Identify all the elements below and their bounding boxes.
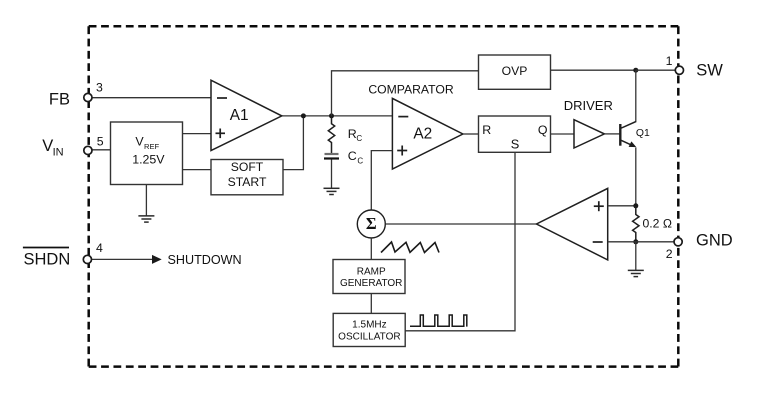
svg-text:4: 4	[96, 241, 103, 255]
node dot sense top	[633, 203, 638, 208]
wire ramp generator to oscillator	[370, 294, 372, 314]
svg-text:C: C	[357, 156, 363, 165]
wire sigma down to ramp generator	[370, 238, 372, 260]
wire A2 plus input from sigma	[371, 151, 392, 211]
sense amp minus sign	[593, 241, 603, 243]
wire VREF to A1 plus input	[183, 133, 212, 135]
pin FB circle	[84, 93, 92, 101]
node dot soft-start junction	[301, 113, 306, 118]
ground for CC	[324, 188, 340, 194]
current sense amplifier	[537, 188, 608, 260]
ground for VREF	[145, 185, 147, 216]
SHUTDOWN arrowhead	[152, 255, 162, 264]
svg-text:SW: SW	[696, 61, 723, 79]
wire A1 output to A2 minus input	[282, 115, 393, 117]
svg-text:R: R	[482, 123, 491, 137]
summing node sigma	[357, 210, 385, 238]
RS latch block	[479, 116, 551, 152]
svg-text:SOFT: SOFT	[231, 160, 264, 174]
wire OVP output to SW node	[551, 69, 636, 71]
wire A2 output to RS latch	[463, 133, 479, 135]
svg-text:DRIVER: DRIVER	[564, 98, 613, 113]
A1 minus sign	[217, 97, 227, 99]
node dot SW junction	[633, 68, 638, 73]
op-amp A1	[211, 80, 282, 150]
VREF block	[111, 122, 183, 185]
wire sigma to sense amp output	[385, 223, 536, 225]
svg-text:IN: IN	[53, 147, 64, 159]
svg-text:GENERATOR: GENERATOR	[340, 278, 402, 289]
clock pulse waveform	[410, 315, 467, 327]
svg-text:1.5MHz: 1.5MHz	[352, 320, 386, 331]
1.5MHz OSCILLATOR block	[333, 313, 405, 346]
svg-text:SHUTDOWN: SHUTDOWN	[168, 253, 242, 267]
wire Q1 emitter down to sense node	[635, 148, 637, 206]
svg-text:SHDN: SHDN	[24, 251, 71, 269]
pin SW circle	[675, 66, 683, 74]
svg-text:1.25V: 1.25V	[132, 152, 165, 166]
OVP block	[479, 55, 551, 89]
wire VREF to SOFT START	[183, 169, 212, 171]
IC boundary dashed border	[89, 26, 679, 366]
Q1 emitter arrowhead	[629, 141, 637, 147]
pin SHDN circle	[83, 255, 91, 263]
svg-text:V: V	[42, 137, 53, 155]
SHUTDOWN arrow wire	[91, 258, 154, 260]
svg-text:1: 1	[666, 54, 673, 68]
wire driver to Q1 base	[604, 133, 620, 135]
wire FB pin to A1 minus input	[91, 97, 211, 99]
svg-text:0.2 Ω: 0.2 Ω	[643, 216, 672, 230]
wire SW node down to Q1 collector	[635, 70, 637, 122]
RAMP GENERATOR block	[333, 260, 405, 294]
wire VIN pin to VREF box	[91, 149, 111, 151]
svg-text:Q1: Q1	[636, 128, 650, 139]
pin GND circle	[674, 238, 682, 246]
A2 minus sign	[398, 116, 408, 118]
resistor RC	[328, 116, 334, 153]
sense amp plus sign	[594, 205, 604, 207]
svg-text:OSCILLATOR: OSCILLATOR	[338, 332, 400, 343]
wire SW node to SW pin	[636, 69, 676, 71]
A1 plus sign	[216, 132, 226, 134]
svg-text:C: C	[356, 134, 362, 143]
svg-text:A1: A1	[230, 107, 249, 124]
capacitor CC	[325, 153, 339, 155]
svg-text:Q: Q	[538, 123, 548, 137]
svg-text:C: C	[348, 149, 357, 163]
svg-text:GND: GND	[696, 232, 733, 250]
wire sense amp plus input	[608, 205, 636, 207]
wire sense amp minus input to GND pin	[608, 241, 675, 243]
wire sense node to ground	[635, 242, 637, 271]
wire comp node up and right to OVP input	[332, 71, 479, 116]
node dot compensation junction	[329, 113, 334, 118]
resistor 0.2 ohm	[633, 206, 639, 242]
wire RS Q output to driver	[551, 133, 575, 135]
svg-text:Σ: Σ	[366, 214, 377, 233]
svg-text:REF: REF	[144, 142, 160, 151]
pin VIN circle	[84, 146, 92, 154]
wire SOFT START output up to A1 output node	[283, 116, 304, 170]
svg-text:FB: FB	[49, 90, 70, 108]
svg-text:RAMP: RAMP	[357, 267, 386, 278]
transistor Q1	[620, 122, 636, 147]
comparator A2	[392, 98, 463, 169]
wire S input from oscillator	[405, 152, 515, 330]
svg-text:START: START	[228, 175, 267, 189]
sawtooth ramp waveform	[381, 242, 439, 253]
svg-text:A2: A2	[413, 126, 432, 143]
svg-text:OVP: OVP	[502, 64, 528, 78]
svg-text:COMPARATOR: COMPARATOR	[368, 83, 454, 97]
svg-text:3: 3	[96, 81, 103, 95]
svg-text:2: 2	[666, 247, 673, 261]
node dot sense bottom	[633, 239, 638, 244]
A2 plus sign	[397, 150, 407, 152]
svg-text:5: 5	[97, 134, 104, 148]
ground for sense resistor	[628, 270, 644, 276]
driver buffer triangle	[574, 120, 604, 148]
SOFT START block	[211, 160, 283, 195]
svg-text:S: S	[511, 137, 520, 152]
